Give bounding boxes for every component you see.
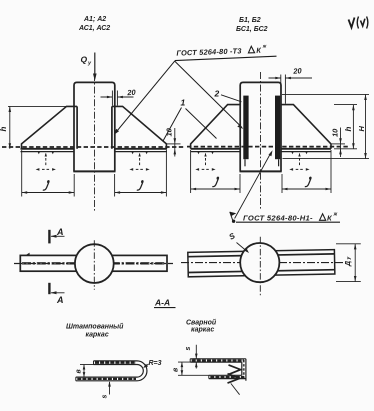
dim label v welded (rotated)	[173, 367, 180, 372]
RIGHT PLAN VIEW	[181, 237, 361, 297]
dim text 20 left	[126, 88, 137, 98]
force arrow Q	[93, 53, 97, 82]
plate bottom edge	[21, 151, 168, 153]
dimension v (welded)	[178, 362, 209, 375]
svg-text:1: 1	[181, 98, 186, 108]
dim text h right (rotated)	[344, 127, 353, 132]
gusset lap edges on stem	[77, 106, 112, 148]
BOTTOM DETAILS	[76, 345, 246, 395]
svg-text:h: h	[0, 127, 8, 132]
svg-text:каркас: каркас	[191, 327, 214, 334]
welded frame: right upright	[242, 359, 246, 381]
svg-text:s: s	[185, 347, 192, 351]
dim text 20 right	[292, 66, 303, 76]
dimension H (far right)	[282, 94, 369, 158]
dim text 10 right (rotated)	[330, 128, 339, 137]
stem (anchor post)	[240, 82, 282, 171]
force label Q	[81, 55, 93, 67]
svg-text:10: 10	[330, 128, 339, 137]
caption welded frame	[186, 319, 217, 334]
concrete surface dashed line	[187, 146, 348, 148]
plate top edge	[191, 148, 331, 150]
svg-text:А1; А2: А1; А2	[83, 16, 106, 23]
dim label s stamped (rotated)	[102, 395, 109, 399]
svg-text:у: у	[346, 257, 352, 261]
dim text h left (rotated)	[0, 127, 8, 132]
svg-text:А: А	[56, 295, 64, 305]
dim label Dy (rotated)	[345, 257, 352, 268]
dimension h (right)	[334, 105, 357, 149]
stamped frame: top leg	[94, 361, 138, 365]
right gusset (pos.1)	[112, 106, 166, 148]
pos label 2 with leader	[214, 89, 242, 102]
side plate pos.2 left (blackened)	[243, 96, 248, 167]
LEFT ELEVATION VIEW A	[2, 53, 184, 213]
thickness arrow s (stamped)	[108, 381, 111, 395]
round plate circle	[75, 244, 114, 283]
dimension l (left gusset B)	[191, 150, 240, 193]
dimension l (right gusset)	[115, 150, 167, 197]
svg-text:h: h	[344, 127, 353, 132]
svg-text:ж: ж	[333, 212, 338, 218]
weld chevron bottom with leader	[228, 374, 240, 395]
svg-text:20: 20	[126, 88, 137, 98]
radius leader R=3	[143, 364, 148, 368]
N1 leader flag and circle	[230, 212, 237, 223]
N1 leader to stem bottom weld	[235, 150, 273, 218]
svg-text:Q: Q	[81, 55, 88, 65]
dimension v (stamped)	[80, 365, 94, 378]
LEFT PLAN VIEW	[14, 230, 173, 294]
round plate circle	[240, 243, 279, 282]
dim text H right (rotated)	[357, 126, 366, 132]
concrete surface dashed line	[2, 146, 184, 148]
vertical centerline of circle	[259, 237, 261, 297]
part marks A	[78, 16, 110, 32]
surface finish symbol	[349, 17, 368, 29]
section letter A bottom	[56, 295, 64, 305]
section letter A top	[56, 227, 64, 237]
pos label 1 with leaders	[163, 98, 217, 142]
svg-text:Сварной: Сварной	[186, 319, 217, 327]
anchor rod edges plan	[188, 254, 335, 273]
caption stamped frame	[66, 323, 124, 339]
svg-text:Н: Н	[357, 126, 366, 132]
svg-text:К: К	[256, 46, 261, 55]
weld chevron top	[229, 365, 241, 375]
stamped frame: 180 deg bend	[137, 361, 147, 381]
plate bottom edge	[191, 151, 331, 153]
section label A-A	[154, 298, 176, 308]
dim label s welded (rotated)	[185, 347, 192, 351]
callout leader to right gusset weld	[114, 61, 175, 135]
svg-text:R=3: R=3	[149, 360, 162, 367]
part marks B	[236, 17, 268, 33]
vertical centerline of circle	[93, 240, 95, 289]
RIGHT ELEVATION VIEW B	[187, 72, 369, 210]
svg-text:ж: ж	[262, 43, 267, 49]
stem centerline	[260, 72, 262, 210]
dimension 10 (right gusset edge)	[332, 128, 345, 158]
dim label v stamped (rotated)	[76, 369, 83, 374]
right gusset of view B	[281, 105, 331, 149]
dim text 10 left (rotated)	[165, 127, 174, 136]
label R=3	[149, 360, 162, 367]
dim text l x4	[43, 177, 311, 190]
svg-text:Д: Д	[345, 261, 352, 267]
svg-text:АС1, АС2: АС1, АС2	[78, 25, 110, 32]
weld callout GOST 5264-80-T3	[176, 43, 267, 57]
svg-text:А: А	[56, 227, 64, 237]
welded frame: top leg	[190, 359, 246, 362]
dimension 20 (top)	[101, 91, 134, 106]
svg-text:А-А: А-А	[154, 298, 170, 308]
svg-text:20: 20	[292, 66, 303, 76]
plate top edge	[21, 148, 168, 150]
hidden anchor marks under right gusset	[129, 152, 149, 171]
dimension 10 (right gusset edge)	[167, 128, 181, 157]
svg-text:Б1, Б2: Б1, Б2	[239, 17, 261, 24]
dimension s (welded)	[193, 345, 200, 369]
svg-text:2: 2	[214, 89, 220, 99]
callout underline	[175, 56, 277, 60]
section mark A (top)	[49, 230, 64, 244]
thickness label S	[228, 231, 238, 242]
stem (anchor post)	[73, 82, 115, 171]
svg-text:10: 10	[165, 127, 174, 136]
dimension l (left gusset)	[22, 150, 74, 197]
hidden anchor marks under left gusset	[36, 152, 56, 171]
N1 callout underline	[236, 221, 340, 223]
dimension 20 (top)	[269, 75, 313, 104]
svg-text:s: s	[102, 395, 109, 399]
svg-text:Штампованный: Штампованный	[66, 323, 124, 331]
callout leader to view B plate weld	[175, 61, 244, 129]
dimension l (right gusset B)	[282, 150, 331, 193]
svg-text:ГОСТ 5264-80-Н1-: ГОСТ 5264-80-Н1-	[243, 214, 313, 223]
hidden anchor marks under left gusset B	[195, 152, 215, 171]
svg-text:БС1, БС2: БС1, БС2	[236, 26, 268, 33]
side plate pos.2 right (blackened)	[275, 96, 280, 167]
stem centerline	[94, 74, 96, 212]
anchor bar plan	[20, 253, 167, 272]
stamped frame: bottom leg	[76, 377, 137, 381]
outer plates outline plan	[188, 250, 335, 277]
weld callout GOST 5264-80-N1	[243, 212, 338, 223]
bar axis centerline	[181, 262, 343, 264]
welded frame: bottom leg	[209, 375, 246, 378]
thickness leader S	[237, 243, 250, 254]
left gusset (pos.1)	[22, 106, 78, 148]
svg-text:каркас: каркас	[86, 332, 109, 339]
dimension h (left)	[8, 106, 67, 148]
dimension Dy (right)	[336, 244, 361, 282]
bar axis centerline	[14, 262, 173, 264]
hidden anchor marks under right gusset B	[289, 152, 309, 171]
left gusset of view B	[191, 105, 240, 149]
section mark A (bottom)	[49, 283, 64, 295]
